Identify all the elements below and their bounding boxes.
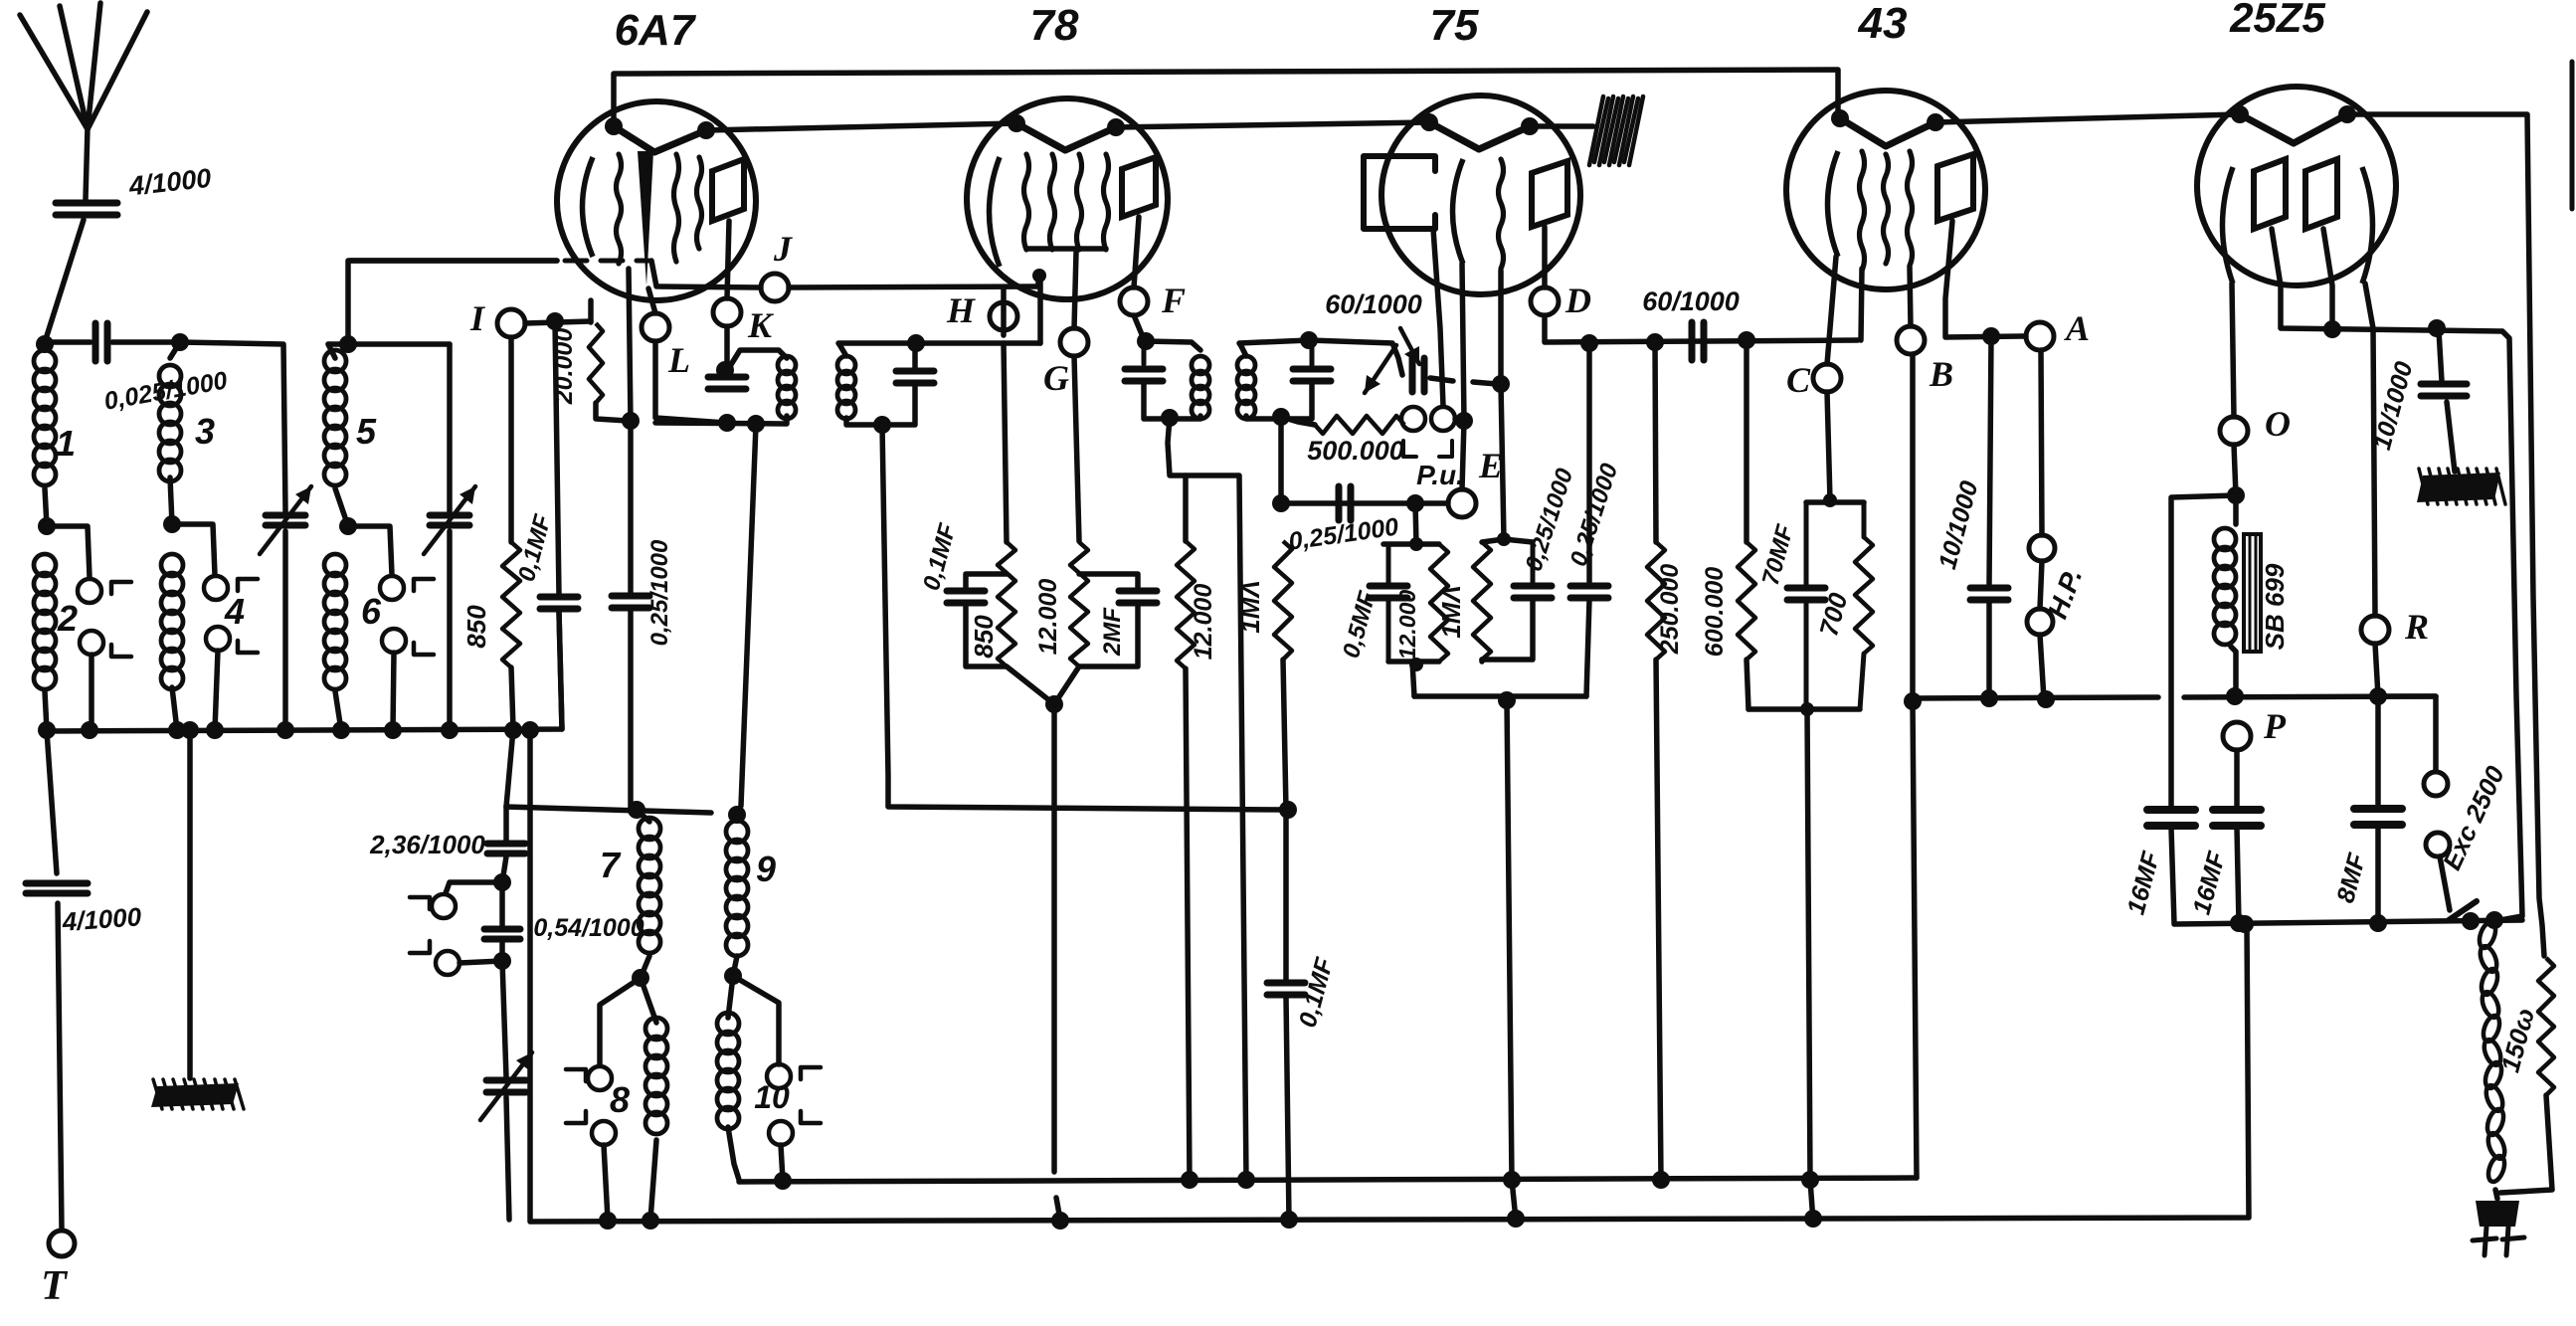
switch mains blade (2449, 901, 2477, 920)
wire 43 plate lead (1945, 221, 2026, 337)
wire bias box to buses (1807, 709, 1810, 1180)
mains plug (2476, 1201, 2519, 1227)
coil 4 (161, 554, 183, 576)
wire 78 grid lead (1074, 252, 1076, 328)
wire switch4 to bus (215, 651, 218, 730)
svg-text:H: H (946, 290, 976, 330)
tube 6A7 grid g4 (697, 157, 702, 249)
tube 6A7 anode wedge (638, 151, 653, 285)
wire IFT1 to coil9 (737, 425, 756, 815)
capacitor 0.25/1000 a (1531, 542, 1536, 584)
coil 1 (34, 350, 56, 372)
wire screen res branch (1183, 475, 1189, 541)
switch 8 contacts (588, 1066, 612, 1090)
wire 75 return rail (1414, 693, 1586, 699)
tube 25Z5 envelope (2197, 87, 2396, 285)
wire diode detector line (1309, 340, 1402, 375)
svg-text:SB 699: SB 699 (2260, 563, 2290, 650)
resistor 12000 screen grid (1070, 542, 1088, 666)
svg-text:2: 2 (57, 598, 78, 639)
svg-text:R: R (2404, 607, 2429, 647)
wire top B+ bus (614, 70, 1838, 126)
terminal F (1120, 287, 1148, 315)
tube 25Z5 filament (2240, 114, 2347, 143)
wire K to cap (724, 326, 730, 369)
svg-text:12.000: 12.000 (1190, 584, 1217, 661)
wire I to 850 (508, 337, 514, 542)
switch 10 contacts (767, 1064, 791, 1088)
terminal O (2220, 417, 2248, 445)
ground symbol left (151, 1083, 239, 1107)
switch 4 contacts (204, 576, 228, 600)
wire AVC to bus2 (1286, 997, 1289, 1220)
wire heater link 6A7-78 (706, 123, 1016, 130)
svg-text:60/1000: 60/1000 (1642, 286, 1740, 316)
coil 3 (159, 365, 181, 387)
wire padder mid (502, 856, 506, 882)
terminal D (1531, 287, 1559, 315)
svg-text:0,25/1000: 0,25/1000 (646, 539, 673, 646)
wire cap b to return rail (1586, 600, 1589, 696)
wire switch2 to bus (89, 655, 94, 730)
wire 16MF1 to bus (2171, 828, 2174, 923)
svg-text:12.000: 12.000 (1394, 590, 1420, 661)
tube 75 envelope (1381, 95, 1580, 294)
variable capacitor 1 (266, 512, 305, 519)
wire D to bus (1545, 315, 1858, 342)
wire coil7-coil8 (641, 956, 649, 978)
wire cap a bottom (1482, 600, 1533, 660)
wire bias75 bottom (1388, 659, 1439, 664)
scan edge artifact (2570, 62, 2575, 209)
wire switch2 branch (47, 526, 90, 577)
tube 6A7 envelope (557, 101, 756, 300)
svg-text:1: 1 (56, 423, 76, 464)
wire 250k to bus1 (1656, 660, 1661, 1180)
wire varcap1 to bus (282, 531, 288, 730)
svg-text:600.000: 600.000 (1701, 567, 1729, 657)
terminal K (713, 298, 741, 326)
tube 43 grid g2 (1884, 154, 1889, 264)
tube 43 grid g1 (1860, 151, 1865, 271)
switch padder contacts (432, 894, 456, 918)
wire 1Meg diode bottom (1479, 660, 1485, 662)
resistor 1 Meg diode (1473, 542, 1491, 660)
wire P to 16MF2 (2234, 750, 2240, 808)
wire 75 plate lead (1542, 227, 1548, 287)
tube 25Z5 plate 2 (2305, 159, 2337, 229)
capacitor 0.54/1000 (499, 882, 505, 926)
resistor 20.000 (589, 323, 603, 403)
wire switch6 branch (348, 526, 392, 575)
wire 75 cathode lead (1462, 264, 1464, 421)
coil IFT1 secondary (837, 356, 855, 374)
svg-text:6: 6 (361, 591, 382, 632)
coil 10 (717, 1013, 739, 1035)
capacitor 0.25/1000 b (1586, 343, 1592, 584)
wire osc varcap to bus2 (506, 1097, 509, 1220)
wire B to bus1 (1913, 354, 1917, 1178)
svg-text:75: 75 (1430, 1, 1479, 50)
capacitor 8MF (2375, 696, 2381, 807)
tube 75 plate (1532, 161, 1567, 227)
terminal B (1897, 326, 1925, 354)
coil 7 (639, 818, 660, 840)
svg-text:C: C (1786, 360, 1811, 400)
wire heater link 78-75 (1116, 122, 1429, 127)
coil 5 (324, 350, 346, 372)
tube 43 grid g3 (1908, 151, 1913, 266)
capacitor 0.025/1000 (92, 323, 99, 361)
speaker field coil SB699 (2233, 495, 2239, 524)
tube 75 diode plates (1364, 156, 1435, 229)
capacitor 0.1MF left (540, 594, 578, 601)
speaker magnet bar (2244, 534, 2261, 652)
resistor 850 left (502, 542, 520, 667)
terminal Exc 2 (2426, 833, 2450, 856)
capacitor 0.1MF bias (947, 588, 985, 595)
wire heater link 43-25Z5 (1935, 114, 2240, 122)
wire padder switch branch (446, 882, 502, 893)
node osc junction (622, 412, 640, 430)
tube 6A7 filament (614, 126, 706, 152)
wire O to filter node (2234, 445, 2236, 495)
variable capacitor 2 (430, 512, 469, 519)
wire 10/1000 to ground (2447, 402, 2455, 472)
terminal G (1060, 328, 1088, 356)
svg-text:D: D (1564, 281, 1591, 320)
wire padder switch return (460, 961, 502, 963)
wire osc grid riser (348, 261, 557, 344)
wire C to bias box (1827, 392, 1830, 500)
wire IFT2 prim to B line (1168, 418, 1246, 1180)
wire IFT1 sec top (838, 343, 1040, 356)
tube 25Z5 plate 1 (2254, 159, 2286, 229)
wire bus to ground (187, 731, 193, 1078)
terminal E (1448, 489, 1476, 517)
wire bottom bus 1 (739, 1178, 1917, 1182)
tube 78 cathode (990, 157, 1001, 267)
wire G to screen network (1074, 356, 1079, 541)
wire 20k bottom (596, 403, 628, 421)
wire 43 grid riser (1861, 269, 1862, 340)
terminal L (642, 313, 669, 341)
wire cap to coil3 node (112, 339, 180, 345)
wire I to grid (525, 321, 591, 323)
tube 43 filament (1840, 118, 1935, 146)
coil IFT2 secondary (1237, 356, 1255, 374)
coil 6 (324, 554, 346, 576)
wire IFT1 sec bottom (846, 385, 915, 425)
svg-text:6A7: 6A7 (615, 6, 697, 55)
wire 1Meg diode top (1482, 539, 1504, 542)
wire 25Z5 cathode1 to O (2232, 284, 2234, 417)
resistor 1 Meg grid (1274, 541, 1292, 660)
svg-text:3: 3 (195, 411, 215, 452)
wire 16MF2 to bus (2237, 828, 2239, 923)
svg-text:G: G (1043, 358, 1069, 398)
capacitor 16MF 2 (2213, 806, 2261, 814)
wire coil10 to bus1 (728, 1127, 739, 1180)
resistor 700 (1862, 502, 1867, 537)
wire 2MF branch (1079, 574, 1138, 589)
tube 78 grid tie (1026, 246, 1106, 252)
wire osc coil top link (506, 807, 711, 813)
wire 12.000 to bus1 (1186, 668, 1190, 1180)
capacitor 0.25/1000 E (1336, 486, 1343, 520)
wire left ground bus (45, 613, 562, 731)
terminal HP 1 (2029, 535, 2055, 561)
wire 6A7 plate lead K (727, 221, 729, 298)
antenna (20, 15, 88, 129)
wire 78 plate lead (1134, 217, 1139, 287)
wire companion to plug (2500, 1095, 2552, 1193)
tube 43 plate (1937, 154, 1973, 221)
resistor 850 bias (998, 542, 1015, 666)
wire J riser to 78 cathode (1035, 276, 1041, 286)
wire 8MF to bus (2375, 827, 2381, 923)
capacitor IFT2 secondary (1310, 340, 1315, 365)
svg-text:A: A (2064, 308, 2090, 348)
ground symbol right (2417, 473, 2500, 502)
wire 60/1000 to grid (1430, 378, 1453, 381)
wire I line down (555, 321, 559, 595)
wire filter bus (2174, 920, 2522, 924)
wire H to bias network (1004, 343, 1007, 542)
wire IFT1 primary bottom (655, 416, 787, 424)
wire R to node (2375, 644, 2378, 696)
wire 850 to bus and padder (506, 667, 513, 807)
wire heater 25Z5 right to mains (2347, 114, 2544, 956)
svg-text:8: 8 (610, 1079, 630, 1120)
grid shield hatch (1589, 96, 1603, 165)
wire ant bus to cap (45, 339, 91, 345)
capacitor 0.25/1000 osc (612, 593, 649, 600)
wire A to HP (2041, 350, 2042, 535)
wire bias box top (1415, 503, 1416, 544)
wire switch4 branch (172, 524, 215, 575)
svg-text:T: T (41, 1263, 69, 1309)
svg-text:60/1000: 60/1000 (1325, 289, 1422, 319)
node bus1 dots (774, 1172, 792, 1190)
wire coil6 to bus (335, 691, 341, 730)
terminal Exc 1 (2424, 772, 2448, 796)
wire H riser (1037, 276, 1043, 343)
node D bus dots (1580, 334, 1598, 352)
tube 43 envelope (1786, 91, 1985, 289)
wire bias networks join (1007, 666, 1054, 704)
wire heater link 75-shield (1530, 123, 1593, 129)
wire switch8 to bus2 (604, 1145, 608, 1220)
svg-text:B: B (1929, 354, 1953, 394)
wire coil8 to bus2 (650, 1140, 656, 1220)
coil 2 (34, 554, 56, 576)
tube 78 plate (1122, 157, 1156, 217)
wire 1Meg to AVC (1283, 660, 1286, 810)
resistor line cord companion (2538, 958, 2554, 1095)
wire varcap2 to bus (447, 531, 453, 730)
svg-text:7: 7 (600, 845, 622, 885)
svg-text:4: 4 (224, 591, 245, 632)
capacitor 4/1000 antenna (56, 200, 117, 207)
svg-text:250.000: 250.000 (1656, 564, 1684, 655)
wire 43 cathode lead (1827, 257, 1836, 364)
wire IFT2 sec bottom (1246, 383, 1312, 419)
svg-text:E: E (1478, 446, 1503, 485)
terminal A (2026, 322, 2054, 350)
wire 6A7 g1 lead to cap (629, 269, 631, 594)
svg-text:L: L (667, 340, 690, 380)
terminal I (497, 309, 525, 337)
wire coil5 top link (328, 341, 450, 347)
wire coil9-coil10 (733, 956, 737, 976)
svg-text:25Z5: 25Z5 (2229, 0, 2325, 41)
wire cord to plug (2495, 1190, 2497, 1199)
svg-text:0,54/1000: 0,54/1000 (533, 914, 644, 942)
wire 75 grid lead (1498, 271, 1504, 384)
wire 600k to output box (1747, 660, 1748, 709)
svg-text:43: 43 (1858, 0, 1908, 48)
wire IFT1 box top (727, 350, 787, 371)
capacitor 10/1000 line (2439, 330, 2442, 381)
wire HP to rail (2040, 561, 2042, 609)
wire IFT2 prim top (1146, 341, 1200, 350)
coil 8 (645, 1018, 667, 1040)
wire IFT1 sec to AVC line (882, 425, 1288, 810)
svg-text:850: 850 (969, 615, 999, 659)
terminal C (1813, 364, 1841, 392)
terminal J (761, 274, 789, 301)
resistor 600.000 (1744, 340, 1749, 542)
svg-text:K: K (747, 305, 775, 345)
coil IFT2 primary (1192, 356, 1209, 374)
wire to terminal T (58, 903, 62, 1230)
tube 78 grid g2 (1050, 154, 1055, 250)
terminal R (2361, 616, 2389, 644)
tube 75 filament (1429, 122, 1530, 149)
node bus dots (38, 721, 56, 739)
svg-text:78: 78 (1030, 1, 1079, 50)
terminal PU 2 (1431, 407, 1455, 431)
switch 6 contacts (380, 576, 404, 600)
capacitor 70MF (1804, 502, 1809, 585)
capacitor 0.1MF AVC (1267, 980, 1305, 987)
switch 2 contacts (78, 579, 101, 603)
capacitor 2.36/1000 (503, 807, 509, 841)
svg-text:P: P (2263, 706, 2287, 746)
variable capacitor osc (486, 1077, 526, 1084)
wire switch6 to bus (393, 653, 394, 730)
wire coil5-coil6 (335, 488, 348, 526)
tube 6A7 cathode (583, 157, 594, 257)
tube 75 diode lead (1433, 229, 1443, 406)
wire osc cap to coil7 (628, 610, 634, 808)
svg-text:F: F (1161, 281, 1186, 320)
wire E line (1281, 500, 1448, 506)
wire rectifier output down (2500, 331, 2522, 920)
tube 78 grid g3 (1077, 154, 1082, 250)
tube 78 filament (1016, 123, 1116, 150)
terminal HP 2 (2027, 609, 2053, 635)
svg-text:1MΛ: 1MΛ (1235, 580, 1265, 633)
wire J line (658, 286, 761, 287)
svg-text:850: 850 (461, 605, 491, 649)
tube 6A7 grid g1 (617, 154, 622, 264)
capacitor 2MF (1119, 588, 1157, 595)
wire 0.1MF to bus (559, 611, 562, 729)
wire 25Z5 cathode2 to R (2365, 284, 2375, 616)
capacitor 4/1000 bottom (26, 880, 88, 887)
node antenna junction (36, 335, 54, 353)
resistor 12.000 plate (1177, 541, 1195, 668)
wire H stub (1001, 287, 1007, 335)
terminal H (990, 302, 1017, 330)
wire output return rail (1913, 697, 2158, 698)
wire switch10 to bus1 (781, 1145, 783, 1180)
wire F to IFT2 (1134, 315, 1144, 339)
svg-text:I: I (469, 298, 486, 338)
capacitor 0.5MF bias75 (1386, 544, 1391, 583)
wire E riser (1462, 421, 1464, 489)
coil 9 (726, 821, 748, 843)
wire 6A7 g4 lead (588, 300, 594, 322)
heater cord 150w (2477, 920, 2498, 950)
bracket PU (1403, 441, 1416, 457)
capacitor 10/1000 output (1989, 336, 1991, 585)
wire bias box top rail (1383, 541, 1439, 547)
tube 6A7 grid g3 (674, 154, 679, 262)
wire coil4 to bus (172, 687, 177, 730)
wire IFT2sec to 1Meg (1278, 417, 1284, 503)
wire coil2 to bus (45, 691, 47, 730)
tube 43 cathode (1828, 151, 1839, 257)
wire switch8 branch (600, 978, 641, 1065)
wire IFT1 sec cap lead (912, 343, 918, 368)
svg-text:1MΛ: 1MΛ (1436, 585, 1466, 638)
tube 75 grid (1499, 159, 1504, 269)
wire grid to bias box (1501, 384, 1504, 539)
svg-text:9: 9 (756, 849, 776, 889)
tube 6A7 plate (712, 159, 744, 221)
svg-text:5: 5 (356, 411, 377, 452)
wire bottom bus 2 (530, 731, 2249, 1222)
wire 0.1MF branch bottom (966, 605, 1007, 666)
capacitor 60/1000 coupling (1689, 322, 1696, 360)
wire filter node left (2171, 495, 2236, 808)
resistor 12000 bias75 (1430, 544, 1448, 662)
wire AVC cap line (1283, 810, 1289, 980)
wire 2MF branch bottom (1079, 605, 1138, 666)
terminal T (49, 1231, 75, 1256)
wire 43 g2 lead B (1910, 267, 1911, 326)
potentiometer 500.000 (1315, 416, 1404, 434)
wire switch10 branch (733, 976, 779, 1064)
capacitor IFT2 primary (1142, 343, 1147, 364)
tube 78 envelope (967, 98, 1168, 299)
terminal P (2223, 722, 2251, 750)
wire IFT2 prim bottom (1144, 383, 1200, 419)
coil IFT1 primary (778, 356, 796, 374)
wire to varcap2 (447, 344, 453, 511)
tube 75 cathode (1453, 159, 1464, 264)
svg-text:500.000: 500.000 (1307, 436, 1404, 466)
capacitor IFT1 secondary (896, 368, 934, 375)
tube 25Z5 cathode 1 (2223, 167, 2234, 284)
svg-text:O: O (2265, 404, 2291, 444)
node bus2 dots (599, 1212, 617, 1230)
wire cap a top (1504, 539, 1533, 542)
arrow potentiometer (1365, 345, 1396, 393)
